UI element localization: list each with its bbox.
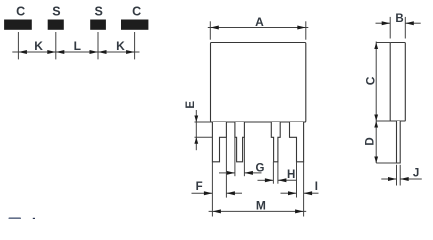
svg-text:F: F (196, 181, 203, 193)
arrow E top (194, 116, 198, 123)
dimension line M (209, 210, 307, 212)
dimension line E (195, 110, 197, 150)
package body front (211, 43, 306, 123)
dimension line K-L-K (12, 51, 139, 53)
extension line G left (234, 137, 236, 176)
dimension line J right segment (400, 178, 422, 180)
dimension line D (375, 121, 377, 163)
extension line C bottom shared with D top (376, 120, 390, 122)
extension line pad C1 center (17, 32, 19, 59)
lead 3 front (271, 122, 280, 162)
dimension line I right segment (304, 192, 319, 194)
arrow M right (295, 209, 304, 213)
extension line E top (195, 121, 211, 123)
arrow J right (400, 177, 409, 181)
extension line C top (376, 42, 390, 44)
extension line A left (209, 21, 211, 39)
pad S2 (90, 20, 106, 30)
truncated figure bar bottom-left (9, 217, 22, 220)
extension line J right (399, 165, 401, 186)
lead 1 front (212, 122, 226, 162)
arrow K2 right (126, 50, 135, 54)
svg-text:M: M (256, 199, 266, 213)
svg-text:I: I (315, 181, 318, 193)
svg-text:S: S (52, 5, 60, 19)
svg-text:D: D (365, 137, 377, 145)
arrow L right (90, 50, 99, 54)
svg-text:S: S (95, 5, 103, 19)
arrow M left (212, 209, 221, 213)
extension line F left (211, 162, 213, 217)
package body side (390, 43, 405, 122)
extension line B left (389, 17, 391, 39)
pad S1 (48, 20, 64, 30)
extension line J left (396, 165, 398, 186)
svg-text:J: J (413, 167, 419, 179)
arrow D bottom (374, 157, 378, 164)
arrow B right (405, 21, 414, 25)
arrow H left (265, 178, 274, 182)
dimension line F right segment (226, 192, 242, 194)
arrow A right (297, 26, 306, 30)
svg-text:B: B (395, 13, 403, 25)
arrow A left (210, 26, 219, 30)
arrow F right (226, 191, 235, 195)
extension line pad C2 center (134, 32, 136, 59)
dimension line H right segment (278, 179, 296, 181)
extension line B right (404, 17, 406, 39)
lead 4 front (290, 122, 304, 162)
extension line G right (243, 137, 245, 176)
arrow F left (204, 191, 213, 195)
lead 2 front (235, 122, 245, 162)
extension line D bottom (376, 162, 396, 164)
svg-text:L: L (74, 39, 81, 53)
pad C1 (4, 20, 32, 30)
arrow I left (288, 191, 297, 195)
dimension line G right segment (244, 172, 261, 174)
arrow K2 left (98, 50, 107, 54)
extension line pad S1 center (55, 32, 57, 59)
extension line I left (296, 162, 298, 198)
dimension line H left segment (258, 179, 274, 181)
dimension line B left segment (376, 22, 391, 24)
extension line H right (277, 162, 279, 184)
extension line F right (225, 137, 227, 197)
truncated text dot bottom-left (33, 218, 35, 220)
extension line E bottom (195, 136, 213, 138)
svg-text:H: H (287, 169, 295, 181)
dimension line C (375, 42, 377, 122)
dimension line I left segment (281, 192, 297, 194)
arrow G right (244, 171, 253, 175)
arrow I right (304, 191, 313, 195)
dimension line A (208, 27, 308, 29)
arrow H right (278, 178, 287, 182)
dimension line B right segment (405, 22, 420, 24)
arrow E bottom (194, 137, 198, 144)
svg-text:G: G (256, 163, 265, 175)
pad C2 (121, 20, 148, 30)
svg-text:C: C (364, 76, 378, 85)
svg-text:K: K (116, 39, 125, 53)
extension line pad S2 center (97, 32, 99, 59)
arrow K1 left (18, 50, 27, 54)
svg-text:K: K (34, 39, 43, 53)
arrow G left (226, 171, 235, 175)
arrow K1 right (47, 50, 56, 54)
dimension line F left segment (192, 192, 213, 194)
extension line H left (272, 162, 274, 184)
svg-text:C: C (16, 5, 25, 19)
arrow B left (382, 21, 391, 25)
svg-text:A: A (255, 15, 264, 29)
arrow C bottom (374, 115, 378, 122)
lead side (397, 121, 401, 163)
arrow D top (374, 121, 378, 128)
svg-text:C: C (132, 5, 141, 19)
arrow C top (374, 43, 378, 50)
extension line I right (303, 162, 305, 217)
dimension line G left segment (219, 172, 235, 174)
svg-text:E: E (185, 101, 197, 109)
dimension line J left segment (381, 178, 396, 180)
arrow L left (56, 50, 65, 54)
arrow J left (388, 177, 397, 181)
extension line A right (305, 21, 307, 39)
